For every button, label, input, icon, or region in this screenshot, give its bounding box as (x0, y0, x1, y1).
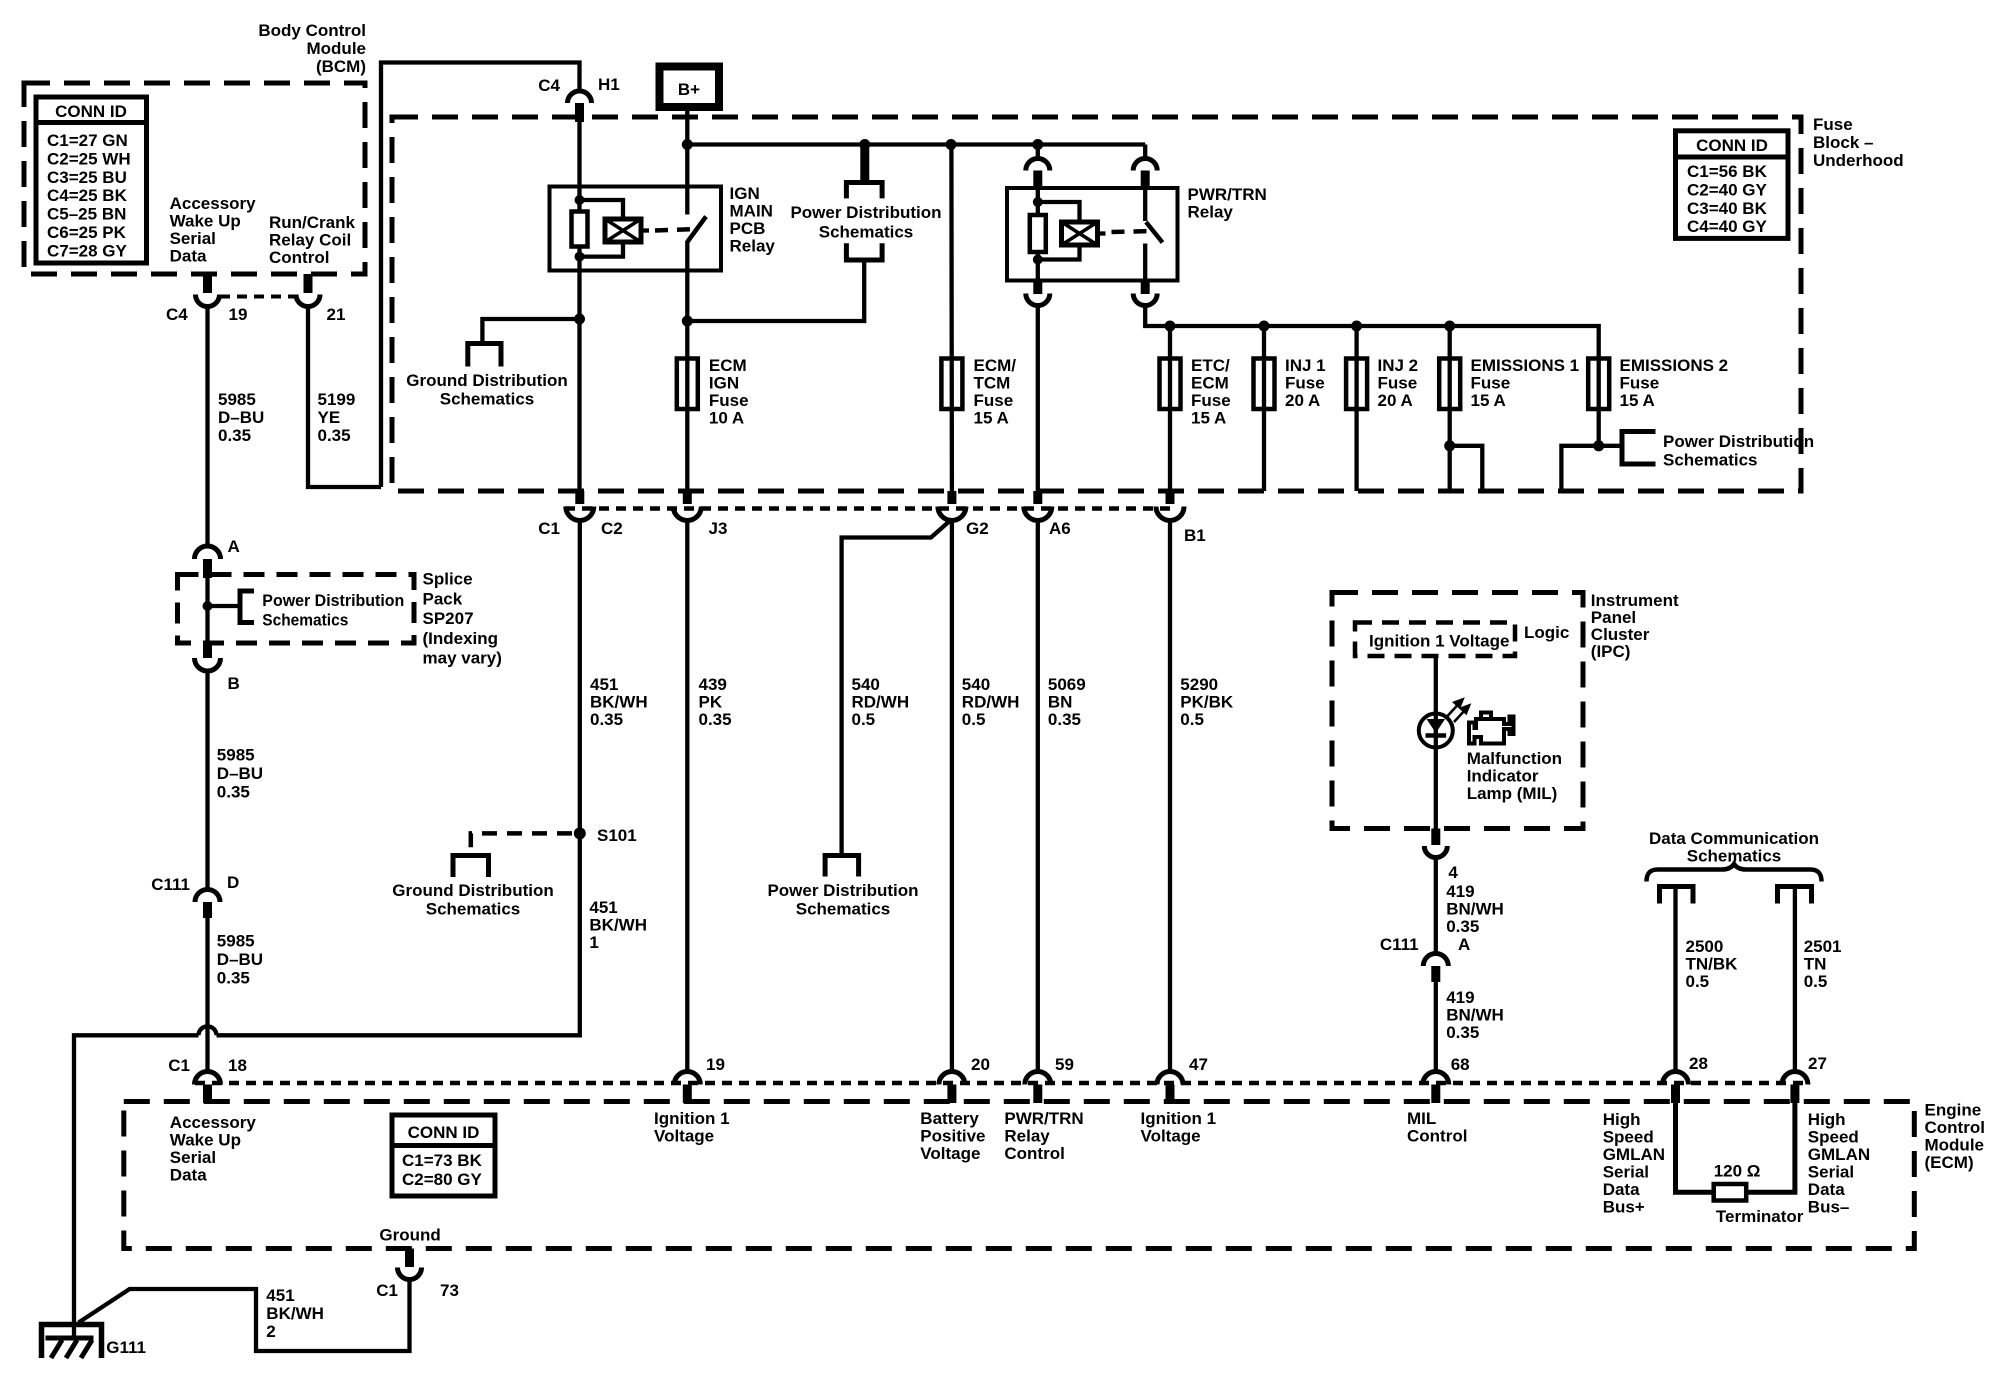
svg-text:BK/WH: BK/WH (589, 916, 647, 935)
svg-text:C7=28 GY: C7=28 GY (47, 241, 128, 260)
svg-text:Schematics: Schematics (819, 223, 914, 242)
switch blade PWR/TRN relay (1146, 222, 1163, 243)
connector cup C1 73 (398, 1268, 422, 1280)
svg-text:540: 540 (962, 675, 990, 694)
svg-text:Data: Data (170, 1166, 207, 1185)
label wire 5290 PK/BK 0.5 (1180, 675, 1234, 729)
wire to ground distribution symbol (482, 319, 579, 344)
pin stub PWR/TRN coil top (1033, 171, 1042, 191)
svg-text:BK/WH: BK/WH (266, 1304, 324, 1323)
svg-text:PK/BK: PK/BK (1180, 693, 1234, 712)
svg-text:TCM: TCM (974, 374, 1011, 393)
connector cup G2 (938, 507, 966, 521)
svg-text:(Indexing: (Indexing (423, 629, 499, 648)
svg-text:A: A (1458, 935, 1470, 954)
wire bus to upper bracket (860, 145, 869, 181)
label wire 451 BK/WH 1 (589, 898, 647, 952)
svg-text:INJ 1: INJ 1 (1285, 356, 1326, 375)
wire switch to bottom pin (1143, 244, 1147, 281)
svg-text:47: 47 (1189, 1055, 1208, 1074)
svg-text:YE: YE (318, 408, 341, 427)
svg-text:Data: Data (1808, 1180, 1845, 1199)
svg-text:Fuse: Fuse (1620, 374, 1660, 393)
label wire 2501 TN 0.5 (1804, 937, 1842, 991)
svg-text:Malfunction: Malfunction (1467, 749, 1562, 768)
svg-text:15 A: 15 A (1191, 409, 1226, 428)
pin stub A6 (1033, 491, 1042, 504)
wire 2500 TN/BK to ECM 28 (1673, 887, 1677, 1074)
svg-text:Fuse: Fuse (1471, 374, 1511, 393)
off-page symbol power distribution upper bracket (846, 183, 882, 199)
wire 5985 segment B to C111 D (205, 671, 209, 888)
label wire 451 BK/WH 2 (266, 1286, 324, 1341)
node bus/INJ2 fuse (1351, 321, 1362, 332)
label Ground Distribution Schematics (fuse block) (406, 371, 567, 409)
svg-text:15 A: 15 A (974, 409, 1009, 428)
pin stub ECM 20 (947, 1085, 956, 1104)
svg-text:C4=25 BK: C4=25 BK (47, 186, 128, 205)
fuse INJ 1 20A (1254, 359, 1275, 410)
svg-text:0.35: 0.35 (699, 710, 732, 729)
svg-text:C6=25 PK: C6=25 PK (47, 223, 127, 242)
pin stub C111 A (1431, 966, 1440, 982)
svg-text:Serial: Serial (170, 229, 216, 248)
svg-text:C111: C111 (151, 875, 190, 894)
svg-text:5985: 5985 (218, 390, 256, 409)
svg-text:28: 28 (1689, 1054, 1708, 1073)
label Accessory Wake Up Serial Data (ECM) (170, 1113, 257, 1185)
label Ground Distribution Schematics (S101) (392, 881, 553, 919)
svg-text:ETC/: ETC/ (1191, 356, 1230, 375)
svg-text:19: 19 (229, 305, 248, 324)
pin stub ECM 18 (203, 1085, 212, 1104)
splice pack box SP207 (178, 575, 415, 644)
svg-text:(IPC): (IPC) (1591, 642, 1631, 661)
pin stub A into splice box (203, 559, 212, 578)
pin stub BCM 19 (203, 274, 212, 293)
svg-text:Ground: Ground (379, 1226, 440, 1245)
pin stub ECM 28 (1671, 1085, 1680, 1104)
wire bus B+ feed (687, 142, 1145, 146)
wire 540 branch diagonal to power distribution (842, 519, 952, 853)
svg-text:D–BU: D–BU (218, 408, 264, 427)
svg-text:2500: 2500 (1686, 937, 1724, 956)
label wire 439 PK 0.35 (699, 675, 732, 729)
svg-text:Terminator: Terminator (1716, 1207, 1804, 1226)
connector cup ECM 27 (1782, 1072, 1808, 1085)
pin stub PWR/TRN coil bottom (1033, 281, 1042, 295)
svg-text:Schematics: Schematics (440, 390, 535, 409)
svg-text:27: 27 (1808, 1054, 1827, 1073)
svg-text:4: 4 (1448, 863, 1458, 882)
label wire 540 RD/WH 0.5 (main) (962, 675, 1020, 729)
label High Speed GMLAN Serial Data Bus+ (1603, 1110, 1665, 1217)
connector cup ECM 18 (195, 1072, 221, 1085)
label Power Distribution Schematics (splice) (262, 591, 404, 630)
svg-text:EMISSIONS 1: EMISSIONS 1 (1471, 356, 1580, 375)
node bus/ETC fuse (1165, 321, 1176, 332)
svg-text:IGN: IGN (709, 374, 739, 393)
svg-text:Lamp (MIL): Lamp (MIL) (1467, 784, 1558, 803)
relay box IGN MAIN PCB Relay (550, 187, 722, 271)
label Splice Pack SP207 (423, 570, 502, 668)
svg-text:Voltage: Voltage (920, 1144, 980, 1163)
svg-text:B: B (228, 674, 240, 693)
svg-text:419: 419 (1446, 882, 1474, 901)
svg-text:Engine: Engine (1925, 1101, 1982, 1120)
svg-text:Wake Up: Wake Up (170, 1131, 241, 1150)
connector cup B1 (1156, 507, 1184, 521)
svg-text:Power Distribution: Power Distribution (1663, 432, 1814, 451)
label wire 540 RD/WH 0.5 (branch) (852, 675, 910, 729)
svg-text:C3=25 BU: C3=25 BU (47, 168, 127, 187)
svg-text:Schematics: Schematics (1663, 451, 1758, 470)
connector cup C111 D (195, 889, 220, 902)
svg-text:Fuse: Fuse (1378, 374, 1418, 393)
svg-text:CONN ID: CONN ID (55, 102, 127, 121)
svg-text:0.35: 0.35 (1048, 710, 1081, 729)
label wire 5985 D-BU 0.35 (upper) (218, 390, 264, 445)
connector cup C2 (566, 507, 594, 521)
svg-text:C1: C1 (168, 1056, 190, 1075)
svg-text:Pack: Pack (423, 589, 463, 608)
wire EMISSIONS1 branch (1450, 446, 1483, 491)
svg-text:PWR/TRN: PWR/TRN (1004, 1109, 1083, 1128)
svg-text:ECM: ECM (709, 356, 747, 375)
label ETC/ECM Fuse 15 A (1191, 356, 1231, 428)
label IGN MAIN PCB Relay (730, 184, 776, 256)
svg-text:C1=56 BK: C1=56 BK (1687, 162, 1768, 181)
pin stub H1 into fuse block (575, 103, 584, 122)
svg-text:Underhood: Underhood (1813, 151, 1904, 170)
svg-text:C111: C111 (1380, 935, 1419, 954)
svg-text:EMISSIONS 2: EMISSIONS 2 (1620, 356, 1729, 375)
off-page symbol serial data bus+ (1660, 887, 1694, 904)
label ECM IGN Fuse 10 A (709, 356, 749, 428)
wire IGN relay coil leg (577, 120, 581, 212)
power symbol B+ (660, 67, 720, 108)
wire EMISSIONS1 fuse drop (1448, 326, 1452, 491)
svg-text:G111: G111 (106, 1338, 146, 1357)
fuse ECM/TCM 15A (941, 359, 962, 410)
pin stub PWR/TRN switch top (1141, 171, 1150, 191)
svg-text:MAIN: MAIN (730, 202, 773, 221)
svg-text:Speed: Speed (1603, 1128, 1654, 1147)
svg-text:59: 59 (1055, 1055, 1074, 1074)
svg-text:Serial: Serial (1603, 1163, 1649, 1182)
wire 5199 segment pin21 down (308, 306, 381, 487)
connector cup PWR/TRN switch bottom (1133, 294, 1157, 306)
svg-text:C1: C1 (538, 519, 560, 538)
off-page symbol ground distribution (S101) (453, 856, 489, 878)
node junction bus/powerdist (859, 139, 870, 150)
pin stub BCM 21 (304, 274, 313, 293)
relay box PWR/TRN Relay (1007, 188, 1178, 281)
connector cup B (195, 658, 221, 671)
svg-text:15 A: 15 A (1620, 391, 1655, 410)
off-page symbol serial data bus- (1778, 887, 1812, 904)
pin stub B1 (1166, 491, 1175, 504)
label Power Distribution Schematics (emissions) (1663, 432, 1814, 470)
wire PWR/TRN coil leg (1036, 190, 1040, 215)
wire 2501 TN to ECM 27 (1793, 887, 1797, 1074)
node coil top (575, 195, 585, 205)
label Power Distribution Schematics (middle) (767, 881, 918, 919)
off-page symbol power distribution (below G2 branch) (825, 856, 859, 877)
wire splice through (205, 578, 209, 643)
LED emission arrows (1448, 700, 1470, 723)
off-page symbol ground distribution (fuse block) (468, 344, 501, 367)
svg-text:CONN ID: CONN ID (1696, 136, 1768, 155)
label wire 419 BN/WH 0.35 (lower) (1446, 988, 1504, 1042)
svg-text:Fuse: Fuse (1813, 115, 1853, 134)
off-page symbol power distribution (splice) (240, 591, 254, 623)
connector cup A (above splice) (195, 546, 221, 559)
svg-text:Fuse: Fuse (974, 391, 1014, 410)
svg-text:5290: 5290 (1180, 675, 1218, 694)
connector cup C4 pin 19 (196, 295, 220, 307)
dashed armature link IGN relay (641, 229, 697, 231)
svg-text:Ignition 1 Voltage: Ignition 1 Voltage (1369, 632, 1509, 651)
label wire 5069 BN 0.35 (1048, 675, 1086, 729)
wire EMISSIONS2 branch left (1561, 446, 1598, 491)
svg-text:Body Control: Body Control (258, 21, 366, 40)
svg-text:High: High (1808, 1110, 1846, 1129)
wire 540 G2 to ECM 20 (950, 521, 954, 1074)
svg-text:5069: 5069 (1048, 675, 1086, 694)
node PWR coil top (1033, 197, 1043, 207)
wire switch to J3 (685, 241, 689, 491)
LED cathode bar (1426, 733, 1447, 738)
svg-text:RD/WH: RD/WH (852, 693, 910, 712)
svg-text:Speed: Speed (1808, 1128, 1859, 1147)
coil symbol (box-X) IGN relay (605, 219, 641, 242)
svg-text:GMLAN: GMLAN (1808, 1145, 1870, 1164)
svg-text:19: 19 (706, 1055, 725, 1074)
connector cup C111 A (1423, 954, 1448, 967)
svg-text:PWR/TRN: PWR/TRN (1188, 185, 1267, 204)
svg-text:C2=25 WH: C2=25 WH (47, 149, 131, 168)
fuse INJ 2 20A (1346, 359, 1367, 410)
node IGN out right (682, 316, 693, 327)
table CONN ID (fuse block) (1676, 131, 1789, 239)
connector cup ECM 47 (1157, 1072, 1183, 1085)
svg-text:5199: 5199 (318, 390, 356, 409)
svg-text:IGN: IGN (730, 184, 760, 203)
node junction B+/bus (682, 139, 693, 150)
connector cup ECM 19 (674, 1072, 700, 1085)
svg-text:0.5: 0.5 (962, 710, 986, 729)
svg-text:Serial: Serial (170, 1148, 216, 1167)
svg-text:B1: B1 (1184, 526, 1206, 545)
svg-text:C4=40 GY: C4=40 GY (1687, 217, 1768, 236)
pin stub ECM ground 73 (405, 1249, 414, 1268)
coil symbol (box-X) PWR/TRN relay (1062, 222, 1098, 245)
LED triangle (1427, 719, 1446, 733)
label Accessory Wake Up Serial Data (BCM pin 19) (170, 194, 257, 266)
svg-text:Control: Control (1004, 1144, 1064, 1163)
connector cup ECM 20 (939, 1072, 965, 1085)
svg-text:20 A: 20 A (1285, 391, 1320, 410)
wire ignition to MIL lamp (1434, 656, 1438, 750)
label MIL Control (1407, 1109, 1467, 1146)
svg-text:Positive: Positive (920, 1127, 985, 1146)
svg-text:C2=40 GY: C2=40 GY (1687, 180, 1768, 199)
wire 451 BK/WH C2 to S101 (578, 521, 582, 834)
pin stub PWR/TRN switch bottom (1141, 281, 1150, 295)
svg-text:D–BU: D–BU (217, 764, 263, 783)
module box BCM (Body Control Module) (24, 83, 365, 274)
table CONN ID (BCM) (36, 97, 147, 263)
svg-text:18: 18 (228, 1056, 247, 1075)
svg-text:Relay: Relay (1188, 203, 1234, 222)
svg-text:2: 2 (266, 1322, 275, 1341)
wire 419 BN/WH to ECM 68 (1434, 982, 1438, 1073)
svg-text:540: 540 (852, 675, 880, 694)
pin stub B below splice box (203, 643, 212, 658)
connector cup IPC 4 (1424, 846, 1447, 858)
svg-text:High: High (1603, 1110, 1641, 1129)
svg-text:C1=27 GN: C1=27 GN (47, 131, 128, 150)
label Engine Control Module (ECM) (1925, 1101, 1985, 1173)
svg-text:10 A: 10 A (709, 409, 744, 428)
lamp MIL LED circle (1419, 714, 1453, 748)
svg-text:Block –: Block – (1813, 133, 1873, 152)
wire 5985 segment C111 to ECM 18 (205, 918, 209, 1073)
label Power Distribution Schematics (top) (790, 203, 941, 242)
svg-text:451: 451 (590, 675, 618, 694)
svg-text:Module: Module (1925, 1136, 1985, 1155)
module box Fuse Block - Underhood (392, 117, 1801, 491)
svg-text:Schematics: Schematics (796, 900, 891, 919)
wire PWR/TRN control to A6 (1036, 305, 1040, 491)
svg-text:MIL: MIL (1407, 1109, 1436, 1128)
label Ignition 1 Voltage (pin 47) (1141, 1109, 1217, 1146)
svg-text:Logic: Logic (1524, 623, 1569, 642)
svg-text:RD/WH: RD/WH (962, 693, 1020, 712)
svg-text:Power Distribution: Power Distribution (262, 591, 404, 610)
svg-text:ECM/: ECM/ (974, 356, 1017, 375)
svg-text:21: 21 (327, 305, 346, 324)
label Malfunction Indicator Lamp (MIL) (1467, 749, 1562, 803)
connector cup PWR/TRN switch top (1133, 159, 1157, 171)
wire PWR coil branch top (1038, 202, 1080, 222)
svg-text:BK/WH: BK/WH (590, 693, 648, 712)
svg-text:Ignition 1: Ignition 1 (1141, 1109, 1217, 1128)
svg-text:451: 451 (589, 898, 617, 917)
svg-text:Bus+: Bus+ (1603, 1198, 1645, 1217)
pin stub ECM 47 (1166, 1085, 1175, 1104)
node bus/EMISSIONS1 fuse (1444, 321, 1455, 332)
svg-text:(ECM): (ECM) (1925, 1153, 1974, 1172)
node bus/INJ1 fuse (1259, 321, 1270, 332)
label ECM/TCM Fuse 15 A (974, 356, 1017, 428)
wire coil branch top (580, 200, 624, 219)
fuse ETC/ECM 15A (1160, 359, 1181, 410)
label Ignition 1 Voltage (pin 19) (654, 1109, 730, 1146)
wire hop 451-2 over 5985 (199, 1026, 217, 1035)
connector cup ECM 28 (1663, 1072, 1689, 1085)
svg-text:Voltage: Voltage (654, 1127, 714, 1146)
label wire 451 BK/WH 0.35 (590, 675, 648, 729)
svg-text:Splice: Splice (423, 570, 473, 589)
wire INJ1 fuse drop (1262, 326, 1266, 491)
svg-text:Serial: Serial (1808, 1163, 1854, 1182)
svg-text:Data: Data (170, 247, 207, 266)
svg-text:(BCM): (BCM) (316, 57, 366, 76)
pin stub C111 D (203, 902, 212, 918)
svg-text:PCB: PCB (730, 219, 766, 238)
ground symbol G111 (42, 1325, 102, 1359)
svg-text:5985: 5985 (217, 932, 255, 951)
connector cup A6 (1024, 507, 1052, 521)
label wire 2500 TN/BK 0.5 (1686, 937, 1739, 991)
node IGN out left (574, 314, 585, 325)
label PWR/TRN Relay (1188, 185, 1267, 222)
wire ETC fuse drop (1168, 326, 1172, 491)
svg-text:C3=40 BK: C3=40 BK (1687, 199, 1768, 218)
off-page symbol power distribution lower bracket (846, 243, 882, 260)
dashed armature link PWR/TRN relay (1098, 231, 1154, 234)
wire 5985 segment pin19 to connector A (205, 306, 209, 547)
svg-text:G2: G2 (966, 519, 989, 538)
fuse EMISSIONS 2 15A (1588, 359, 1609, 410)
label Run/Crank Relay Coil Control (BCM pin 21) (269, 213, 356, 267)
switch fixed contact PWR/TRN relay (1143, 190, 1147, 221)
wire 451 BK/WH 2 ground run (79, 1279, 410, 1351)
svg-text:0.5: 0.5 (1686, 972, 1710, 991)
wire J3 branch to power distribution riser (687, 263, 864, 322)
svg-text:PK: PK (699, 693, 723, 712)
wire PWR coil branch bottom (1038, 245, 1080, 260)
svg-text:120 Ω: 120 Ω (1714, 1162, 1761, 1181)
wire PWR coil to bottom pin (1036, 252, 1040, 281)
svg-text:Control: Control (1925, 1118, 1985, 1137)
svg-text:5985: 5985 (217, 746, 255, 765)
wire bus corner to PWR/TRN switch pin (1143, 145, 1147, 158)
svg-text:20: 20 (971, 1055, 990, 1074)
svg-text:451: 451 (266, 1286, 294, 1305)
label wire 5985 D-BU 0.35 (middle) (217, 746, 263, 802)
dashed connector link C4 19-21 (220, 295, 296, 299)
dotted connector row (ECM top) (195, 1081, 1810, 1086)
wire IGN relay coil to C2 (577, 247, 581, 492)
svg-text:0.35: 0.35 (218, 426, 251, 445)
label Instrument Panel Cluster (IPC) (1591, 591, 1679, 661)
svg-text:Wake Up: Wake Up (170, 212, 241, 231)
svg-text:Battery: Battery (920, 1109, 979, 1128)
wire bus drop to ECM/TCM fuse (949, 145, 954, 492)
switch blade IGN relay (687, 217, 706, 243)
svg-text:C5–25 BN: C5–25 BN (47, 205, 126, 224)
svg-text:68: 68 (1451, 1055, 1470, 1074)
svg-text:A: A (228, 537, 240, 556)
svg-text:SP207: SP207 (423, 609, 474, 628)
svg-text:C1=73 BK: C1=73 BK (402, 1151, 483, 1170)
svg-text:C4: C4 (166, 305, 188, 324)
brace data communication (1647, 864, 1822, 882)
wire bus drop to PWR/TRN coil pin (1036, 145, 1040, 158)
wire MIL lamp to IPC pin 4 (1434, 748, 1438, 829)
connector cup J3 (673, 507, 701, 521)
label High Speed GMLAN Serial Data Bus- (1808, 1110, 1870, 1217)
svg-text:73: 73 (440, 1281, 459, 1300)
wire riser to top line (381, 63, 580, 488)
wire terminator left leg (1676, 1103, 1714, 1192)
svg-text:C4: C4 (538, 76, 560, 95)
svg-text:0.35: 0.35 (1446, 917, 1479, 936)
svg-text:Voltage: Voltage (1141, 1127, 1201, 1146)
